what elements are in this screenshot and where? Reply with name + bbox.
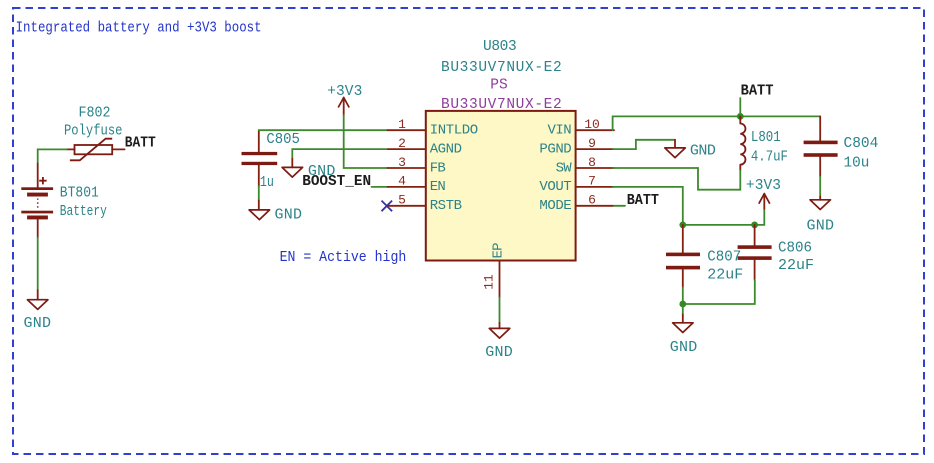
svg-text:22uF: 22uF	[707, 268, 743, 284]
svg-text:6: 6	[588, 193, 596, 208]
svg-text:BATT: BATT	[741, 83, 774, 100]
svg-text:7: 7	[588, 174, 596, 189]
ground GND C804	[807, 196, 835, 234]
wire node to ground	[682, 304, 684, 314]
svg-text:8: 8	[588, 155, 596, 170]
svg-text:GND: GND	[690, 143, 716, 160]
svg-text:VIN: VIN	[548, 123, 572, 139]
svg-text:22uF: 22uF	[778, 258, 814, 274]
pin 10 VIN	[548, 117, 615, 139]
no-connect X on RSTB	[382, 201, 393, 212]
svg-text:FB: FB	[430, 160, 446, 176]
node VOUT junction right	[751, 222, 758, 229]
svg-text:L801: L801	[751, 130, 781, 146]
svg-text:U803: U803	[483, 39, 517, 55]
wire MODE to BATT label	[614, 205, 625, 207]
pin 3 FB	[388, 155, 446, 177]
pin 5 RSTB	[388, 193, 463, 215]
svg-text:BOOST_EN: BOOST_EN	[302, 173, 371, 190]
fuse F802	[64, 106, 125, 161]
svg-text:EN: EN	[430, 179, 446, 195]
pin 6 MODE	[539, 193, 614, 215]
svg-text:Battery: Battery	[60, 204, 107, 220]
svg-text:C807: C807	[707, 250, 741, 266]
svg-text:+3V3: +3V3	[327, 84, 362, 100]
inductor L801	[740, 116, 788, 170]
ground GND EP	[485, 323, 513, 361]
ground GND PGND	[665, 140, 716, 160]
node VOUT junction left	[679, 222, 686, 229]
svg-text:BATT: BATT	[125, 135, 156, 152]
svg-text:10u: 10u	[844, 156, 870, 172]
svg-text:GND: GND	[807, 218, 835, 235]
capacitor C807	[666, 225, 743, 288]
pin 4 EN	[388, 174, 446, 196]
svg-text:BU33UV7NUX-E2: BU33UV7NUX-E2	[441, 60, 562, 76]
wire bottom rail to C806	[683, 280, 755, 304]
svg-text:1: 1	[398, 117, 406, 132]
capacitor C804	[804, 116, 879, 176]
svg-text:+3V3: +3V3	[746, 178, 781, 194]
svg-text:9: 9	[588, 136, 596, 151]
wire AGND to ground	[292, 149, 386, 159]
svg-text:MODE: MODE	[539, 198, 571, 214]
svg-text:GND: GND	[485, 344, 513, 361]
IC U803 BU33UV7NUX-E2	[426, 39, 576, 261]
ground GND battery	[24, 290, 52, 332]
svg-text:2: 2	[398, 136, 406, 151]
svg-text:4.7uF: 4.7uF	[751, 149, 788, 165]
capacitor C805	[242, 130, 300, 191]
svg-text:5: 5	[398, 193, 406, 208]
battery BT801	[21, 164, 107, 238]
svg-text:11: 11	[482, 274, 497, 290]
wire battery to ground	[37, 238, 39, 290]
svg-text:VOUT: VOUT	[539, 179, 571, 195]
label BATT top	[740, 83, 773, 117]
svg-text:C805: C805	[266, 132, 300, 148]
pin 11 EP	[482, 242, 507, 297]
power +3V3 for FB	[327, 84, 362, 115]
svg-text:EN = Active high: EN = Active high	[280, 249, 407, 266]
wire EP to ground	[499, 298, 501, 323]
svg-text:PGND: PGND	[539, 141, 571, 157]
pin 1 INTLDO	[388, 117, 479, 139]
wire C805 to ground	[258, 186, 260, 200]
svg-text:4: 4	[398, 174, 406, 189]
svg-text:1u: 1u	[260, 175, 274, 191]
svg-text:RSTB: RSTB	[430, 198, 462, 214]
svg-text:Integrated battery and +3V3 bo: Integrated battery and +3V3 boost	[16, 20, 262, 37]
wire battery to fuse	[38, 149, 67, 163]
ground GND C805	[249, 200, 302, 223]
pin 9 PGND	[539, 136, 614, 158]
node ground junction	[679, 301, 686, 308]
wire C805 to pin INTLDO	[259, 129, 388, 131]
svg-text:SW: SW	[556, 160, 573, 176]
svg-text:GND: GND	[24, 315, 52, 332]
ground GND AGND	[282, 159, 335, 180]
wire +3V3 to pin FB	[344, 115, 388, 168]
svg-text:Polyfuse: Polyfuse	[64, 124, 123, 140]
svg-text:AGND: AGND	[430, 141, 462, 157]
svg-text:C804: C804	[844, 136, 879, 152]
power +3V3 for VOUT	[746, 178, 781, 209]
wire BOOST_EN to pin EN	[372, 186, 388, 188]
wire VIN up to BATT rail	[613, 116, 821, 130]
wire C804 to ground	[819, 177, 821, 197]
svg-text:BATT: BATT	[627, 192, 659, 209]
svg-text:GND: GND	[275, 207, 303, 224]
svg-text:BU33UV7NUX-E2: BU33UV7NUX-E2	[441, 97, 562, 113]
pin 8 SW	[556, 155, 614, 177]
svg-text:F802: F802	[79, 106, 111, 122]
wire SW to L801	[613, 168, 741, 190]
pin 7 VOUT	[539, 174, 614, 196]
wire PGND to ground	[613, 140, 675, 149]
node BATT junction	[737, 113, 744, 120]
svg-text:GND: GND	[670, 339, 698, 356]
ground GND C807	[670, 314, 698, 356]
wire C807 to bottom node	[682, 288, 684, 305]
svg-text:C806: C806	[778, 241, 812, 257]
wire VOUT to output node	[613, 187, 765, 225]
capacitor C806	[738, 225, 814, 280]
svg-text:INTLDO: INTLDO	[430, 123, 478, 139]
svg-text:EP: EP	[491, 242, 507, 258]
svg-text:BT801: BT801	[60, 185, 99, 201]
svg-text:3: 3	[398, 155, 406, 170]
pin 2 AGND	[388, 136, 463, 158]
svg-text:10: 10	[584, 117, 600, 132]
svg-text:PS: PS	[490, 78, 507, 94]
